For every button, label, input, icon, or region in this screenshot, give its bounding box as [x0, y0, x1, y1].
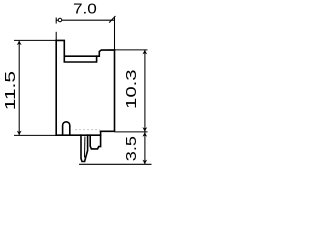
svg-text:3.5: 3.5 — [122, 136, 139, 161]
svg-text:11.5: 11.5 — [1, 71, 18, 110]
svg-text:7.0: 7.0 — [73, 0, 97, 17]
svg-text:10.3: 10.3 — [123, 69, 140, 109]
